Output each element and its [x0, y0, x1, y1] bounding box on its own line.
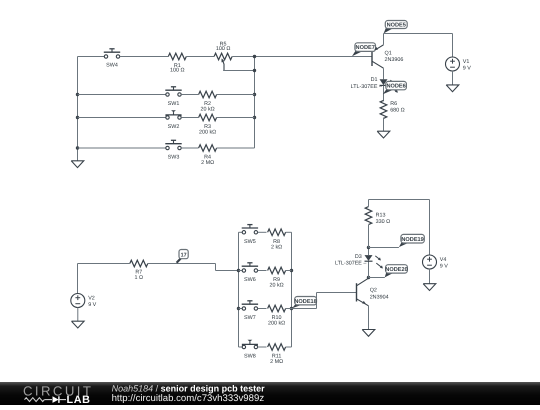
svg-text:20 kΩ: 20 kΩ: [269, 283, 283, 289]
svg-text:NODE5: NODE5: [387, 23, 406, 29]
svg-text:9 V: 9 V: [88, 302, 96, 308]
svg-text:D3: D3: [355, 254, 362, 260]
svg-text:2 MΩ: 2 MΩ: [270, 359, 283, 365]
svg-text:SW6: SW6: [244, 277, 256, 283]
svg-text:680 Ω: 680 Ω: [390, 108, 405, 114]
svg-text:NODE19: NODE19: [401, 237, 423, 243]
svg-text:Q2: Q2: [370, 288, 377, 294]
svg-text:100 Ω: 100 Ω: [216, 46, 231, 52]
svg-text:SW2: SW2: [168, 124, 180, 130]
svg-text:SW3: SW3: [168, 155, 180, 161]
svg-text:V4: V4: [440, 257, 447, 263]
svg-text:SW8: SW8: [244, 354, 256, 360]
svg-text:200 kΩ: 200 kΩ: [268, 321, 285, 327]
svg-text:LTL-307EE –: LTL-307EE –: [351, 84, 382, 90]
svg-text:SW4: SW4: [106, 63, 118, 69]
svg-text:http://circuitlab.com/c73vh333: http://circuitlab.com/c73vh333v989z: [112, 393, 265, 404]
svg-text:17: 17: [181, 252, 187, 258]
svg-text:2 kΩ: 2 kΩ: [271, 244, 282, 250]
svg-text:9 V: 9 V: [463, 66, 471, 72]
svg-text:LAB: LAB: [67, 394, 91, 405]
svg-text:1 Ω: 1 Ω: [135, 275, 144, 281]
svg-text:200 kΩ: 200 kΩ: [199, 129, 216, 135]
svg-text:NODE6: NODE6: [386, 84, 405, 90]
svg-text:2N3906: 2N3906: [385, 57, 404, 63]
svg-text:D1: D1: [371, 77, 378, 83]
svg-text:100 Ω: 100 Ω: [170, 68, 185, 74]
svg-text:R6: R6: [390, 101, 397, 107]
svg-text:NODE7: NODE7: [356, 45, 375, 51]
svg-text:NODE20: NODE20: [385, 267, 407, 273]
svg-text:Q1: Q1: [385, 50, 392, 56]
svg-text:V2: V2: [88, 295, 95, 301]
svg-text:Noah5184 / senior design pcb t: Noah5184 / senior design pcb tester: [112, 383, 266, 393]
svg-text:2 MΩ: 2 MΩ: [201, 160, 214, 166]
svg-text:330 Ω: 330 Ω: [376, 219, 391, 225]
svg-text:2N3904: 2N3904: [370, 294, 389, 300]
svg-text:SW5: SW5: [244, 239, 256, 245]
svg-text:SW7: SW7: [244, 315, 256, 321]
svg-text:NODE18: NODE18: [294, 299, 316, 305]
svg-text:V1: V1: [463, 59, 470, 65]
svg-text:9 V: 9 V: [440, 264, 448, 270]
svg-text:R13: R13: [376, 212, 386, 218]
svg-text:SW1: SW1: [168, 101, 180, 107]
svg-text:20 kΩ: 20 kΩ: [200, 107, 214, 113]
svg-text:LTL-307EE –: LTL-307EE –: [335, 261, 366, 267]
